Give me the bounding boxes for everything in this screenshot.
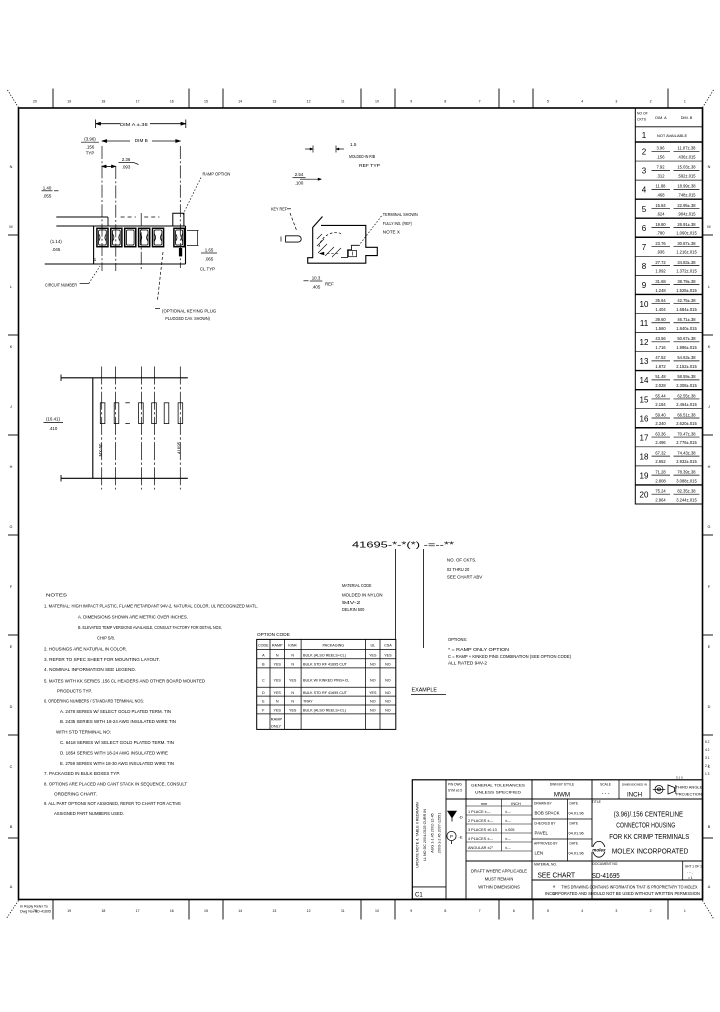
- svg-text:1: 1: [94, 257, 97, 263]
- svg-text:DIM B: DIM B: [135, 138, 148, 144]
- svg-text:DWN BY STYLE: DWN BY STYLE: [550, 783, 575, 787]
- svg-text:62.55±.38: 62.55±.38: [677, 393, 696, 398]
- svg-text:4: 4: [581, 100, 583, 104]
- svg-text:L: L: [708, 285, 710, 289]
- svg-text:13: 13: [272, 909, 276, 913]
- svg-text:.405: .405: [312, 284, 321, 289]
- svg-text:.312: .312: [657, 173, 666, 178]
- svg-text:1.092: 1.092: [655, 269, 666, 274]
- svg-text:MATERIAL NO.: MATERIAL NO.: [534, 863, 557, 867]
- svg-text:D. 1854 SERIES WITH 18-24 AWG: D. 1854 SERIES WITH 18-24 AWG INSULATED …: [60, 750, 168, 755]
- svg-text:11.88: 11.88: [656, 184, 667, 189]
- svg-text:INCH: INCH: [511, 801, 521, 806]
- svg-text:10.3: 10.3: [312, 275, 321, 280]
- svg-text:YES: YES: [289, 679, 297, 683]
- svg-text:SCALE: SCALE: [600, 783, 612, 787]
- svg-text:PRODUCTS TYP.: PRODUCTS TYP.: [57, 688, 92, 693]
- svg-text:-E: -E: [459, 835, 463, 840]
- svg-text:7: 7: [479, 100, 481, 104]
- svg-text:.904±.015: .904±.015: [677, 212, 696, 217]
- section housing outline: [308, 217, 378, 264]
- svg-text:19.80: 19.80: [655, 222, 666, 227]
- svg-text:NO: NO: [385, 663, 391, 667]
- svg-text:41695: 41695: [177, 441, 182, 454]
- svg-text:SEE CHART: SEE CHART: [538, 873, 576, 880]
- svg-text:DRAFT WHERE APPLICABLE: DRAFT WHERE APPLICABLE: [471, 869, 527, 874]
- svg-text:NOTE X: NOTE X: [383, 230, 400, 235]
- svg-text:.780: .780: [657, 231, 666, 236]
- svg-text:2 PLACES ±---: 2 PLACES ±---: [468, 819, 494, 823]
- svg-text:59.40: 59.40: [655, 412, 666, 417]
- svg-text:75.24: 75.24: [655, 489, 666, 494]
- svg-text:DATE: DATE: [570, 842, 579, 846]
- svg-text:42.75±.38: 42.75±.38: [677, 298, 696, 303]
- table header row: [635, 126, 702, 128]
- svg-text:.156: .156: [657, 154, 666, 159]
- svg-text:ASSIGNED PART NUMBERS USED.: ASSIGNED PART NUMBERS USED.: [54, 811, 124, 816]
- svg-text:12: 12: [307, 909, 311, 913]
- svg-text:.055: .055: [43, 193, 52, 198]
- svg-text:N: N: [291, 663, 294, 667]
- cavity 4: [139, 228, 150, 246]
- zone ticks right border: [703, 234, 714, 236]
- svg-text:CONNECTOR HOUSING: CONNECTOR HOUSING: [616, 823, 675, 830]
- svg-text:1.684±.015: 1.684±.015: [676, 307, 697, 312]
- svg-text:.156: .156: [86, 144, 95, 149]
- svg-text:4. NOMINAL INFORMATION SEE LEG: 4. NOMINAL INFORMATION SEE LEGEND.: [44, 667, 136, 672]
- svg-text:04.01.96: 04.01.96: [569, 831, 584, 836]
- svg-text:7: 7: [479, 909, 481, 913]
- svg-text:23.76: 23.76: [655, 241, 666, 246]
- svg-text:G: G: [708, 525, 711, 529]
- svg-text:9: 9: [410, 100, 412, 104]
- svg-text:F: F: [10, 585, 13, 589]
- svg-text:8: 8: [444, 100, 446, 104]
- svg-text:NO: NO: [370, 679, 376, 683]
- front view rib phantom dashes: [121, 216, 136, 218]
- keyed cavity dashes: [125, 402, 130, 404]
- svg-text:TITLE: TITLE: [592, 800, 602, 804]
- svg-text:2.308±.015: 2.308±.015: [676, 383, 697, 388]
- svg-text:.065: .065: [205, 256, 214, 261]
- svg-text:P: P: [450, 834, 453, 839]
- svg-text:15: 15: [640, 395, 649, 404]
- svg-text:16: 16: [170, 909, 174, 913]
- svg-text:BULK STD RF 41695 CUT: BULK STD RF 41695 CUT: [303, 663, 348, 667]
- svg-text:31.68: 31.68: [655, 279, 666, 284]
- svg-text:3 PLACES ±0.13: 3 PLACES ±0.13: [468, 828, 497, 832]
- svg-text:H: H: [10, 465, 13, 469]
- svg-text:K: K: [10, 345, 13, 349]
- svg-text:D: D: [262, 691, 265, 695]
- dim A overall: [96, 123, 186, 125]
- svg-text:±---: ±---: [505, 837, 512, 841]
- svg-text:1.560: 1.560: [655, 326, 666, 331]
- svg-text:1.996±.015: 1.996±.015: [676, 345, 697, 350]
- svg-text:TERMINAL SHOWN: TERMINAL SHOWN: [383, 212, 418, 217]
- svg-text:= 1: = 1: [688, 876, 693, 880]
- svg-text:1. MATERIAL: HIGH IMPACT PLAST: 1. MATERIAL: HIGH IMPACT PLASTIC, FLAME …: [44, 604, 258, 609]
- svg-text:(1.14): (1.14): [50, 239, 62, 244]
- bottom view outline: [61, 377, 188, 379]
- svg-text:DIM A ±.38: DIM A ±.38: [120, 122, 148, 128]
- svg-text:REF TYP: REF TYP: [359, 163, 380, 168]
- svg-text:3.96: 3.96: [657, 146, 666, 151]
- svg-text:PAVEL: PAVEL: [535, 831, 549, 836]
- right frame continuation below table: [702, 504, 704, 899]
- svg-text:REF: REF: [325, 281, 334, 286]
- svg-text:CL TYP: CL TYP: [200, 267, 215, 272]
- svg-text:3.088±.015: 3.088±.015: [676, 478, 697, 483]
- svg-text:94V-2: 94V-2: [342, 600, 361, 605]
- svg-text:35.64: 35.64: [655, 298, 666, 303]
- svg-text:MOLDED-IN RIB: MOLDED-IN RIB: [349, 154, 375, 159]
- option code table frame: [257, 639, 396, 729]
- svg-text:BULK W/ KINKED PINS+CL: BULK W/ KINKED PINS+CL: [303, 679, 349, 683]
- svg-text:58.59±.38: 58.59±.38: [677, 374, 696, 379]
- svg-text:A: A: [262, 654, 265, 658]
- svg-text:6: 6: [642, 224, 647, 233]
- svg-text:(3.96): (3.96): [84, 136, 96, 141]
- svg-text:NOTES: NOTES: [46, 593, 67, 599]
- svg-text:1.716: 1.716: [655, 345, 666, 350]
- svg-text:BULK STD RF 41695 CUT: BULK STD RF 41695 CUT: [303, 691, 348, 695]
- svg-text:30.87±.38: 30.87±.38: [677, 241, 696, 246]
- svg-text:KEY REF: KEY REF: [271, 207, 287, 212]
- svg-text:7.92: 7.92: [657, 165, 666, 170]
- svg-text:4 2: 4 2: [705, 748, 710, 752]
- svg-text:OPTION CODE: OPTION CODE: [257, 632, 290, 637]
- svg-text:F: F: [262, 709, 265, 713]
- svg-text:2.652: 2.652: [655, 459, 666, 464]
- svg-text:F: F: [708, 585, 711, 589]
- svg-text:14: 14: [238, 100, 242, 104]
- svg-text:15: 15: [204, 100, 208, 104]
- svg-text:TYP: TYP: [86, 150, 95, 155]
- svg-text:2: 2: [650, 909, 652, 913]
- svg-text:C1: C1: [415, 893, 423, 899]
- svg-text:MUST REMAIN: MUST REMAIN: [485, 877, 514, 882]
- svg-text:CHECKED BY: CHECKED BY: [534, 822, 556, 826]
- svg-text:DIMENSIONED IN: DIMENSIONED IN: [622, 783, 647, 787]
- svg-text:In Reply Refer To: In Reply Refer To: [20, 905, 48, 909]
- svg-text:11: 11: [341, 909, 345, 913]
- svg-text:J: J: [10, 405, 12, 409]
- cavity 5: [153, 228, 164, 246]
- svg-text:DELRIN 500: DELRIN 500: [342, 607, 365, 612]
- svg-text:1 3: 1 3: [705, 772, 710, 776]
- svg-text:6: 6: [513, 909, 515, 913]
- svg-text:.592±.015: .592±.015: [677, 173, 696, 178]
- svg-text:14: 14: [640, 376, 649, 385]
- svg-text:N: N: [291, 654, 294, 658]
- svg-text:molex: molex: [592, 847, 606, 852]
- svg-text:.936: .936: [657, 250, 666, 255]
- svg-text:.748±.015: .748±.015: [677, 193, 696, 198]
- svg-text:BULK (ALSO REELS+CL): BULK (ALSO REELS+CL): [303, 654, 346, 658]
- svg-text:MWM: MWM: [554, 792, 570, 799]
- corner trim marks: [8, 90, 19, 108]
- leader line circuits: [423, 549, 425, 648]
- bottom view interior wall: [92, 378, 94, 479]
- svg-text:DOCUMENT NO.: DOCUMENT NO.: [593, 862, 619, 866]
- svg-text:4: 4: [581, 909, 583, 913]
- svg-text:15.03±.38: 15.03±.38: [677, 165, 696, 170]
- svg-text:(3.96)/.156 CENTERLINE: (3.96)/.156 CENTERLINE: [614, 811, 684, 818]
- dim 10.3/.405 ref: [304, 280, 309, 282]
- svg-text:3.244±.015: 3.244±.015: [676, 497, 697, 502]
- svg-text:INCH: INCH: [627, 792, 642, 799]
- svg-text:ORDERING CHART.: ORDERING CHART.: [54, 792, 97, 797]
- svg-text:19: 19: [67, 909, 71, 913]
- svg-text:47.52: 47.52: [655, 355, 666, 360]
- svg-text:8. OPTIONS ARE PLACED AND CANT: 8. OPTIONS ARE PLACED AND CANT STACK IN …: [44, 782, 187, 787]
- svg-text:13: 13: [640, 357, 649, 366]
- svg-text:ANGULAR ±2°: ANGULAR ±2°: [468, 846, 494, 850]
- zone ticks top border: [52, 89, 54, 109]
- svg-text:YES: YES: [274, 709, 282, 713]
- svg-text:CKTS: CKTS: [637, 118, 647, 122]
- svg-text:41695-*-*(*) -=--**: 41695-*-*(*) -=--**: [352, 540, 455, 550]
- svg-text:14: 14: [238, 909, 242, 913]
- svg-text:LL NO DC 2004-0525 CURR IN: LL NO DC 2004-0525 CURR IN: [423, 809, 427, 861]
- svg-text:1.060±.015: 1.060±.015: [676, 231, 697, 236]
- svg-text:17: 17: [136, 909, 140, 913]
- svg-text:5 1 0: 5 1 0: [676, 776, 683, 780]
- svg-text:YES: YES: [274, 663, 282, 667]
- svg-text:43.56: 43.56: [655, 336, 666, 341]
- row 1 not available: [635, 141, 702, 143]
- svg-text:3: 3: [642, 167, 647, 176]
- svg-text:11: 11: [341, 100, 345, 104]
- svg-text:NO OF: NO OF: [637, 112, 648, 116]
- svg-text:M: M: [9, 225, 12, 229]
- svg-text:7. PACKAGED IN BULK BOXES TYP.: 7. PACKAGED IN BULK BOXES TYP.: [44, 771, 120, 776]
- svg-text:2.808: 2.808: [655, 478, 666, 483]
- svg-text:SD-41695: SD-41695: [592, 871, 620, 880]
- svg-text:1.5: 1.5: [350, 142, 357, 147]
- svg-text:THIS DRAWING CONTAINS INFORMAT: THIS DRAWING CONTAINS INFORMATION THAT I…: [561, 884, 697, 889]
- section hatching: [317, 239, 324, 246]
- svg-text:NO: NO: [385, 709, 391, 713]
- zone ticks bottom border: [52, 900, 54, 920]
- svg-text:38.79±.38: 38.79±.38: [677, 279, 696, 284]
- svg-text:NO: NO: [385, 679, 391, 683]
- svg-text:EXAMPLE: EXAMPLE: [412, 688, 438, 694]
- svg-text:8: 8: [444, 909, 446, 913]
- svg-text:1 PLACE ±---: 1 PLACE ±---: [468, 810, 491, 814]
- svg-text:34.83±.38: 34.83±.38: [677, 260, 696, 265]
- svg-text:AUG 1-1.45 2002-12-45: AUG 1-1.45 2002-12-45: [431, 813, 435, 852]
- svg-text:NO: NO: [370, 709, 376, 713]
- svg-text:82.35±.38: 82.35±.38: [677, 489, 696, 494]
- svg-text:UPDATE NOTE 4, TABLE II REDRAW: UPDATE NOTE 4, TABLE II REDRAWN: [416, 802, 420, 868]
- svg-text:3. REFER TO SPEC SHEET FOR MOU: 3. REFER TO SPEC SHEET FOR MOUNTING LAYO…: [44, 657, 160, 662]
- svg-text:YES: YES: [384, 654, 392, 658]
- svg-text:1.372±.015: 1.372±.015: [676, 269, 697, 274]
- svg-text:2: 2: [642, 148, 647, 157]
- svg-text:3: 3: [615, 100, 617, 104]
- cavity 6 with ramp: [174, 228, 185, 246]
- svg-text:±---: ±---: [505, 819, 512, 823]
- svg-text:✳: ✳: [552, 884, 556, 889]
- svg-text:1: 1: [684, 909, 686, 913]
- svg-text:K: K: [708, 345, 711, 349]
- svg-text:A. DIMENSIONS SHOWN ARE METRIC: A. DIMENSIONS SHOWN ARE METRIC OVER INCH…: [78, 614, 188, 619]
- svg-text:18.99±.38: 18.99±.38: [677, 184, 696, 189]
- svg-text:WITHIN DIMENSIONS: WITHIN DIMENSIONS: [478, 885, 520, 890]
- svg-text:2.028: 2.028: [655, 383, 666, 388]
- svg-text:22.95±.38: 22.95±.38: [677, 203, 696, 208]
- centerline cavity 1: [101, 146, 103, 271]
- svg-text:1.65: 1.65: [205, 247, 214, 252]
- svg-text:.093: .093: [122, 164, 131, 169]
- svg-text:2.776±.015: 2.776±.015: [676, 440, 697, 445]
- svg-text:C = RAMP + KINKED PINS COMBINA: C = RAMP + KINKED PINS COMBINATION (SEE …: [448, 654, 571, 659]
- svg-text:18: 18: [101, 909, 105, 913]
- svg-text:8: 8: [642, 262, 647, 271]
- svg-text:1: 1: [684, 100, 686, 104]
- svg-text:A. 2478 SERIES W/ SELECT GOLD: A. 2478 SERIES W/ SELECT GOLD PLATED TER…: [60, 709, 171, 714]
- svg-text:54.63±.38: 54.63±.38: [677, 355, 696, 360]
- svg-text:20: 20: [640, 491, 649, 500]
- svg-text:2.496: 2.496: [655, 440, 666, 445]
- svg-text:-D: -D: [459, 815, 463, 820]
- svg-text:GENERAL TOLERANCES: GENERAL TOLERANCES: [471, 783, 525, 788]
- svg-text:N: N: [291, 691, 294, 695]
- svg-text:H: H: [708, 465, 711, 469]
- svg-text:L: L: [10, 285, 12, 289]
- svg-text:2.932±.015: 2.932±.015: [676, 459, 697, 464]
- svg-text:FULLY INS. (REF): FULLY INS. (REF): [383, 221, 412, 226]
- latch windows: [100, 403, 105, 424]
- svg-text:1.248: 1.248: [655, 288, 666, 293]
- svg-text:- - -: - - -: [602, 791, 610, 797]
- svg-text:PACKAGING: PACKAGING: [322, 644, 344, 648]
- svg-text:±---: ±---: [505, 810, 512, 814]
- svg-text:DATE: DATE: [570, 802, 579, 806]
- svg-text:UL: UL: [370, 644, 375, 648]
- title block horizontals: [446, 798, 703, 800]
- svg-text:.624: .624: [657, 212, 666, 217]
- svg-text:2.620±.015: 2.620±.015: [676, 421, 697, 426]
- svg-text:18: 18: [640, 452, 649, 461]
- svg-text:B: B: [262, 663, 265, 667]
- rib dim ticks: [312, 146, 314, 153]
- svg-text:78.39±.38: 78.39±.38: [677, 469, 696, 474]
- svg-text:MOLEX INCORPORATED: MOLEX INCORPORATED: [612, 849, 688, 856]
- svg-text:2.36: 2.36: [122, 157, 131, 162]
- svg-text:CSA: CSA: [384, 644, 392, 648]
- svg-text:NO: NO: [370, 700, 376, 704]
- svg-text:18: 18: [101, 100, 105, 104]
- svg-text:PROJECTION: PROJECTION: [676, 792, 702, 797]
- svg-text:.436±.015: .436±.015: [677, 154, 696, 159]
- svg-text:TRAY: TRAY: [303, 700, 313, 704]
- svg-text:2: 2: [650, 100, 652, 104]
- svg-text:71.28: 71.28: [655, 469, 666, 474]
- svg-text:1: 1: [642, 131, 647, 140]
- svg-text:2.340: 2.340: [655, 421, 666, 426]
- terminal insertion arc: [319, 233, 341, 247]
- svg-text:mm: mm: [481, 801, 487, 806]
- svg-text:APPROVED BY: APPROVED BY: [534, 842, 558, 846]
- svg-text:C. 6418 SERIES W/ SELECT GOLD: C. 6418 SERIES W/ SELECT GOLD PLATED TER…: [60, 740, 174, 745]
- svg-text:B. ELEVATED TEMP VERSIONS AVAI: B. ELEVATED TEMP VERSIONS AVAILABLE, CON…: [78, 625, 222, 630]
- svg-text:B: B: [708, 825, 711, 829]
- third angle projection cell: [655, 785, 663, 793]
- svg-text:NO: NO: [370, 663, 376, 667]
- right side bracket dim: [187, 230, 199, 232]
- svg-text:N: N: [276, 700, 279, 704]
- svg-text:B. 2435 SERIES WITH 18-24 AWG: B. 2435 SERIES WITH 18-24 AWG INSULATED …: [60, 719, 176, 724]
- svg-text:1.840±.015: 1.840±.015: [676, 326, 697, 331]
- svg-text:13: 13: [272, 100, 276, 104]
- svg-text:2.964: 2.964: [655, 497, 666, 502]
- svg-text:1.528±.015: 1.528±.015: [676, 288, 697, 293]
- svg-text:(OPTIONAL KEYING PLUG: (OPTIONAL KEYING PLUG: [162, 309, 217, 314]
- svg-text:MOLDED IN NYLON: MOLDED IN NYLON: [342, 593, 383, 598]
- svg-text:SEE CHART ABV: SEE CHART ABV: [447, 575, 483, 580]
- svg-text:E: E: [10, 645, 13, 649]
- svg-text:YES: YES: [274, 691, 282, 695]
- sheet border frame: [19, 108, 703, 900]
- svg-text:INCORPORATED AND SHOULD NOT BE: INCORPORATED AND SHOULD NOT BE USED WITH…: [545, 891, 700, 896]
- svg-text:26.91±.38: 26.91±.38: [677, 222, 696, 227]
- svg-text:2. HOUSINGS ARE NATURAL IN COL: 2. HOUSINGS ARE NATURAL IN COLOR.: [44, 646, 127, 651]
- svg-text:5: 5: [547, 909, 549, 913]
- centerline cavity 4: [140, 213, 142, 271]
- svg-text:50.67±.38: 50.67±.38: [677, 336, 696, 341]
- svg-text:11.07±.38: 11.07±.38: [678, 146, 697, 151]
- svg-text:3: 3: [615, 909, 617, 913]
- zone ticks left border: [8, 234, 19, 236]
- svg-text:CHIP 5/8.: CHIP 5/8.: [97, 635, 115, 640]
- svg-text:N: N: [10, 165, 13, 169]
- svg-text:BULK (ALSO REELS+CL): BULK (ALSO REELS+CL): [303, 709, 346, 713]
- svg-text:02 THRU 20: 02 THRU 20: [447, 567, 470, 572]
- svg-text:NO: NO: [385, 700, 391, 704]
- svg-text:11: 11: [640, 319, 649, 328]
- svg-text:1.404: 1.404: [655, 307, 666, 312]
- svg-text:NOT AVAILABLE: NOT AVAILABLE: [657, 133, 688, 138]
- svg-text:12: 12: [640, 338, 649, 347]
- svg-text:- -- ,: - -- ,: [687, 871, 693, 875]
- svg-text:6: 6: [513, 100, 515, 104]
- svg-text:CODE: CODE: [258, 644, 269, 648]
- svg-text:UNLESS SPECIFIED: UNLESS SPECIFIED: [475, 790, 521, 795]
- svg-text:N: N: [708, 165, 711, 169]
- svg-text:WITH STD TERMINAL NO:: WITH STD TERMINAL NO:: [56, 730, 111, 735]
- svg-text:1.40: 1.40: [43, 185, 52, 190]
- title block verticals: [445, 780, 447, 899]
- insertion direction arrow: [327, 253, 340, 255]
- svg-text:C: C: [262, 679, 265, 683]
- polarizing peg mark: [179, 248, 182, 256]
- svg-text:SYM ±0.5: SYM ±0.5: [448, 789, 462, 793]
- svg-text:2.184: 2.184: [655, 402, 666, 407]
- svg-text:RAMP: RAMP: [271, 716, 283, 721]
- svg-text:N: N: [291, 700, 294, 704]
- svg-text:C: C: [10, 765, 13, 769]
- svg-text:FOR KK CRIMP TERMINALS: FOR KK CRIMP TERMINALS: [609, 833, 689, 841]
- svg-text:NO: NO: [385, 691, 391, 695]
- svg-text:RAMP: RAMP: [272, 644, 283, 648]
- svg-text:20: 20: [33, 100, 37, 104]
- svg-text:CIRCUIT NUMBER: CIRCUIT NUMBER: [45, 283, 78, 288]
- cavity 2: [111, 228, 122, 246]
- svg-text:27.72: 27.72: [655, 260, 666, 265]
